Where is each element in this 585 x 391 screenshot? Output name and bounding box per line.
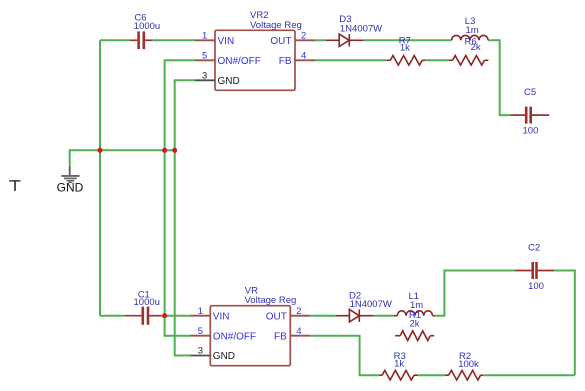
resistor R6 — [449, 56, 489, 66]
capacitor C1 — [125, 307, 161, 325]
svg-text:GND: GND — [213, 351, 235, 362]
wire OUT to D2 — [310, 315, 335, 317]
pin 3 GND stub (VR) — [191, 355, 211, 357]
pin 1 VIN stub (VR) — [191, 315, 211, 317]
pin 2 OUT stub — [295, 39, 315, 41]
pin 2 OUT stub (VR) — [290, 315, 310, 317]
svg-text:3: 3 — [202, 70, 207, 81]
wire D2 to L1 — [374, 315, 394, 317]
svg-text:2k: 2k — [471, 42, 481, 53]
wire ground rail — [70, 150, 175, 166]
wire R3 to R2 — [418, 374, 445, 376]
wire pin3 top elbow — [175, 80, 195, 150]
svg-text:1k: 1k — [394, 359, 404, 370]
wire OUT to D3 — [315, 39, 326, 41]
pin 4 FB stub (VR) — [290, 335, 310, 337]
wire L3 to corner, down to C5 — [488, 40, 510, 115]
capacitor C2 — [515, 262, 554, 279]
wire R7 to R6 — [425, 59, 449, 61]
inductor L3 — [452, 35, 488, 40]
capacitor C6 — [130, 31, 153, 49]
svg-text:1N4007W: 1N4007W — [340, 24, 382, 35]
node junction dot D — [162, 313, 167, 318]
resistor R2 — [445, 370, 483, 380]
svg-text:2: 2 — [296, 306, 301, 317]
svg-text:VIN: VIN — [213, 311, 230, 322]
wire D3 to L3 — [364, 39, 452, 41]
svg-text:Voltage Reg: Voltage Reg — [250, 20, 302, 31]
svg-text:1000u: 1000u — [134, 21, 160, 32]
svg-text:3: 3 — [198, 346, 203, 357]
wire C1 left segment — [100, 315, 125, 317]
svg-text:OUT: OUT — [266, 311, 287, 322]
pin 1 VIN stub — [195, 39, 215, 41]
svg-text:FB: FB — [274, 331, 287, 342]
wire C6 to pin1 — [153, 39, 195, 41]
inductor L1 — [394, 311, 435, 316]
wire pin5 top elbow — [165, 60, 195, 150]
svg-text:4: 4 — [296, 326, 301, 337]
wire FB to R7 — [315, 59, 387, 61]
pin 3 GND stub — [195, 79, 215, 81]
node junction dot B — [162, 148, 167, 153]
resistor R7 — [387, 56, 425, 66]
resistor R3 — [380, 370, 418, 380]
svg-text:5: 5 — [202, 50, 207, 61]
svg-text:C2: C2 — [528, 243, 540, 254]
svg-text:1m: 1m — [466, 25, 479, 36]
wire C1 to pin1 — [161, 315, 190, 317]
wire C6 left segment — [100, 39, 130, 41]
svg-text:1: 1 — [198, 306, 203, 317]
svg-text:Voltage Reg: Voltage Reg — [245, 295, 297, 306]
wire L1 to corner up to C2 — [435, 271, 515, 316]
capacitor C5 — [510, 107, 549, 124]
svg-text:2k: 2k — [410, 318, 420, 329]
op-amp/regulator U VR2 box — [215, 30, 295, 90]
regulator U VR box — [210, 306, 290, 366]
pin 5 ON#/OFF stub — [195, 59, 215, 61]
svg-text:4: 4 — [301, 50, 306, 61]
wire C2 to right corner down — [554, 271, 575, 376]
svg-text:ON#/OFF: ON#/OFF — [218, 56, 261, 67]
svg-text:5: 5 — [198, 326, 203, 337]
svg-text:ON#/OFF: ON#/OFF — [213, 331, 256, 342]
pin 4 FB stub — [295, 59, 315, 61]
svg-text:100: 100 — [523, 126, 539, 137]
wire FB down elbow — [310, 336, 379, 376]
svg-text:100: 100 — [528, 281, 544, 292]
pin 5 ON#/OFF stub (VR) — [191, 335, 211, 337]
diode D3 — [326, 34, 364, 46]
wire right vertical to pin3 elbow — [175, 150, 191, 355]
svg-text:2: 2 — [301, 30, 306, 41]
svg-text:100k: 100k — [458, 359, 479, 370]
svg-text:1N4007W: 1N4007W — [350, 299, 392, 310]
svg-text:C5: C5 — [524, 87, 536, 98]
wire R2 to right vertical — [483, 374, 575, 376]
svg-text:GND: GND — [218, 76, 240, 87]
svg-text:1: 1 — [202, 30, 207, 41]
diode D2 — [335, 310, 373, 322]
svg-text:1k: 1k — [400, 42, 410, 53]
ground GND symbol — [61, 166, 79, 183]
wire VIN-top left vertical — [99, 40, 101, 315]
svg-text:OUT: OUT — [270, 36, 291, 47]
svg-text:GND: GND — [57, 181, 84, 195]
wire mid vertical to pin5 elbow — [165, 150, 191, 335]
node junction dot A — [98, 148, 103, 153]
resistor R1 floating — [395, 331, 434, 341]
svg-text:VIN: VIN — [218, 36, 235, 47]
svg-text:1000u: 1000u — [134, 297, 160, 308]
node junction dot C — [172, 148, 177, 153]
svg-text:FB: FB — [279, 56, 292, 67]
text cursor T — [9, 180, 20, 191]
